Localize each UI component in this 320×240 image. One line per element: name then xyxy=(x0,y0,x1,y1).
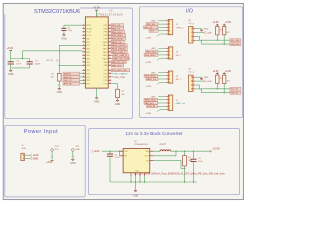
wire RB to SDA line xyxy=(223,84,225,93)
svg-text:PA7: PA7 xyxy=(86,61,89,64)
global label PB7_RX xyxy=(146,23,158,26)
svg-text:+3.3V: +3.3V xyxy=(145,38,151,40)
svg-text:SWCLK: SWCLK xyxy=(64,77,72,79)
svg-text:STM32C071KBU6: STM32C071KBU6 xyxy=(34,9,80,15)
capacitor C4 input xyxy=(109,151,111,154)
wire RA to SCL line xyxy=(216,84,218,89)
svg-text:PD1: PD1 xyxy=(104,73,108,75)
svg-text:PA9_SCL: PA9_SCL xyxy=(145,102,155,105)
U2 pin VIN xyxy=(120,150,124,152)
resistor RB pull-up xyxy=(223,25,225,27)
svg-text:PA11_USB_N: PA11_USB_N xyxy=(113,54,127,57)
ground below R1 xyxy=(58,86,60,88)
connector J5 pin stubs xyxy=(166,95,168,97)
regulator U2 body xyxy=(123,149,150,173)
svg-text:SPI_1: SPI_1 xyxy=(176,55,183,57)
global label +3.3V output xyxy=(210,150,212,153)
svg-text:I/O: I/O xyxy=(186,9,193,15)
junction BOOT0 xyxy=(59,65,60,66)
wire BOOT0 net vertical xyxy=(58,45,60,65)
svg-text:+3.3V: +3.3V xyxy=(46,161,53,164)
resistor RB pull-up xyxy=(223,74,225,76)
section box Power Input xyxy=(5,125,85,197)
svg-text:PB8: PB8 xyxy=(86,65,90,67)
net label GND on J3 pin 1 xyxy=(158,47,166,49)
svg-text:PA10: PA10 xyxy=(103,58,107,61)
svg-text:PA15: PA15 xyxy=(103,41,107,44)
svg-text:PB3_MOSI: PB3_MOSI xyxy=(112,38,123,40)
svg-text:PA9_I2C_SCL: PA9_I2C_SCL xyxy=(112,61,127,64)
ground below U2 xyxy=(135,182,137,191)
svg-text:PC6: PC6 xyxy=(104,83,108,85)
wire ground bus xyxy=(110,181,197,183)
svg-text:PA8: PA8 xyxy=(104,64,107,67)
global label +12V input xyxy=(92,150,94,153)
svg-text:PB1_TIM1: PB1_TIM1 xyxy=(115,77,126,79)
svg-text:Power Input: Power Input xyxy=(24,129,58,135)
svg-text:GND: GND xyxy=(33,157,39,160)
power symbol +3.3V above RA xyxy=(216,73,219,75)
svg-text:SWDIO: SWDIO xyxy=(64,73,72,75)
resistor R1 xyxy=(58,73,62,81)
svg-text:GND: GND xyxy=(70,162,76,165)
connector J4 body xyxy=(168,71,173,83)
svg-text:PB9: PB9 xyxy=(86,70,90,72)
inductor L1 2.2uH xyxy=(160,150,171,151)
U2 pin EN xyxy=(120,155,124,157)
svg-text:PB6_TX: PB6_TX xyxy=(144,27,153,29)
unconnected circle below R1 xyxy=(58,81,60,84)
svg-text:PB5_SCK: PB5_SCK xyxy=(112,32,122,34)
svg-text:2.2uH: 2.2uH xyxy=(159,144,165,146)
section box I/O xyxy=(139,7,242,118)
svg-text:PA10_SDA: PA10_SDA xyxy=(145,99,156,102)
resistor R3 feedback xyxy=(184,151,186,155)
connector J1 body (screw terminal) xyxy=(21,153,24,161)
microcontroller U1 STM32C071KBU6 body xyxy=(85,17,108,88)
connector J4 pin stubs xyxy=(166,71,168,73)
wire B2 pin3 to label SCL_5V xyxy=(195,84,199,86)
junction VOS xyxy=(175,151,176,152)
connector B1 body xyxy=(189,27,194,44)
svg-text:+3.3V: +3.3V xyxy=(225,22,232,24)
wire NRST to capacitor C6 xyxy=(64,24,82,26)
svg-text:PA5: PA5 xyxy=(86,54,89,57)
wire +3.3V to capacitor bus xyxy=(10,51,12,59)
U1 right-side global labels rows 1-14 xyxy=(111,24,124,27)
ground below capacitor bank xyxy=(10,68,12,71)
label row 16 PB1_PWM xyxy=(111,76,114,78)
svg-text:PA14: PA14 xyxy=(103,44,107,47)
global label BTN_IN xyxy=(147,105,158,108)
svg-text:+3.3V: +3.3V xyxy=(93,6,100,10)
svg-text:NRST: NRST xyxy=(86,25,92,27)
net label GND on J2 pin 1 xyxy=(158,20,166,22)
global label CTS xyxy=(149,29,158,32)
capacitor C2 xyxy=(29,59,31,62)
svg-text:22uF: 22uF xyxy=(198,161,203,163)
svg-text:PA6: PA6 xyxy=(86,58,89,61)
svg-text:SW: SW xyxy=(145,151,148,153)
svg-text:PD0: PD0 xyxy=(104,70,108,72)
global label PA10_SDA xyxy=(144,98,158,101)
svg-text:UART_sel: UART_sel xyxy=(176,102,186,105)
wire inductor to +3.3V output xyxy=(171,150,210,152)
U1 right pin stubs, numbers and pin names xyxy=(108,24,111,26)
wire B1 pin4 to label SDA_3V3 xyxy=(195,39,201,41)
svg-text:12v to 3.3v Buck Converter: 12v to 3.3v Buck Converter xyxy=(126,131,184,136)
global label PA15_CS xyxy=(146,78,158,81)
wire SW to inductor L1 xyxy=(153,150,160,152)
ground GND below U1 xyxy=(95,98,98,99)
svg-text:PB6: PB6 xyxy=(104,28,108,30)
wire EN tie to VIN xyxy=(119,151,120,152)
wire B2 pin1 to ground xyxy=(195,76,201,78)
connector B2 pin stubs xyxy=(193,76,195,78)
svg-text:SDA_5V: SDA_5V xyxy=(231,92,239,95)
svg-text:+3.3V: +3.3V xyxy=(6,47,13,50)
svg-text:10k: 10k xyxy=(51,76,54,78)
svg-text:I2C_p: I2C_p xyxy=(189,72,195,74)
wire FB to divider xyxy=(153,159,181,161)
wire BOOT0 to R1 xyxy=(58,65,60,73)
junction C5 top xyxy=(193,151,194,152)
svg-text:+3.3V: +3.3V xyxy=(212,22,219,24)
svg-text:SPI_2: SPI_2 xyxy=(176,79,183,81)
net label GND on J4 pin 1 xyxy=(158,71,166,73)
power label +3.3v on J5 last pin xyxy=(160,109,166,111)
connector J2 pin stubs xyxy=(166,20,168,22)
svg-text:PA10_I2C_SDA: PA10_I2C_SDA xyxy=(113,58,129,61)
U1 left pin stubs, numbers and pin names xyxy=(82,24,85,26)
svg-text:CTS: CTS xyxy=(150,31,155,33)
junction R3 top xyxy=(184,151,185,152)
power label +3.3v on J3 last pin xyxy=(160,57,166,59)
svg-text:PA9: PA9 xyxy=(104,61,107,64)
global label +12V at J1 pin 1 xyxy=(30,154,32,157)
U2 pin VOS xyxy=(150,155,154,157)
svg-text:GND: GND xyxy=(204,77,209,79)
svg-text:SCL_3V3: SCL_3V3 xyxy=(231,40,240,42)
svg-text:PA15_CS: PA15_CS xyxy=(147,78,157,81)
svg-text:4K7: 4K7 xyxy=(227,81,230,83)
svg-text:+3.3V: +3.3V xyxy=(225,71,232,73)
power label +3.3v at B2 pin2 xyxy=(195,80,204,82)
power symbol +3.3V above RA xyxy=(216,24,219,26)
svg-text:PA13_SWDIO: PA13_SWDIO xyxy=(112,48,126,51)
connector J5 body xyxy=(168,95,173,110)
svg-text:PB7_RX: PB7_RX xyxy=(147,24,156,26)
wire PC6 to resistor R2 xyxy=(111,83,117,85)
U2 pin FB xyxy=(150,159,154,161)
svg-text:+3.3V: +3.3V xyxy=(212,71,219,73)
svg-text:PA0: PA0 xyxy=(86,37,89,40)
J1 pin stubs xyxy=(23,154,24,156)
svg-text:GND: GND xyxy=(57,91,63,94)
svg-text:PB3: PB3 xyxy=(86,83,90,85)
svg-text:PB6_TX: PB6_TX xyxy=(112,28,121,30)
svg-text:VDDA: VDDA xyxy=(86,27,92,30)
wire VDD to U1 pin 17 xyxy=(96,10,98,17)
junction on bus xyxy=(22,58,23,59)
ground at B1 pin1 xyxy=(200,30,203,31)
svg-text:PA1: PA1 xyxy=(86,41,89,44)
wire RB to SDA line xyxy=(223,35,225,44)
net label LED_STATUS (teal) row 15 xyxy=(111,73,113,75)
svg-text:Vo_3v3_Imax_500mA_Fsw_500KHZN_: Vo_3v3_Imax_500mA_Fsw_500KHZN_R_10T_delt… xyxy=(134,172,226,176)
svg-text:PC14: PC14 xyxy=(86,32,91,34)
svg-text:PA2: PA2 xyxy=(86,44,89,47)
global label PB3_MOSI xyxy=(144,74,158,77)
svg-text:GND: GND xyxy=(61,37,67,40)
svg-text:+3.3V: +3.3V xyxy=(145,86,151,88)
resistor RA pull-up xyxy=(216,74,218,76)
wire capacitor top bus xyxy=(11,58,30,60)
global label PB6_TX xyxy=(144,26,158,29)
global label SDA_3V3 xyxy=(230,43,241,46)
global label PB4_MISO xyxy=(144,53,158,56)
wire BOOT0 lower to U1 xyxy=(59,64,82,66)
global label GND at J1 pin 2 xyxy=(30,157,32,160)
svg-text:PB5_SCK: PB5_SCK xyxy=(146,51,156,53)
svg-text:I2C_p: I2C_p xyxy=(189,23,195,25)
ground under TP2 xyxy=(72,158,74,160)
svg-text:PB4_MISO: PB4_MISO xyxy=(145,55,156,57)
junction input cap xyxy=(109,151,110,152)
U2 pin SW xyxy=(150,150,154,152)
connector J3 pin stubs xyxy=(166,47,168,49)
svg-text:+12V: +12V xyxy=(94,150,100,153)
svg-text:PA4: PA4 xyxy=(86,51,89,54)
svg-text:PA8_LED: PA8_LED xyxy=(112,64,122,67)
test point TP2 xyxy=(72,149,75,152)
connector J2 body xyxy=(168,19,173,34)
svg-text:+3.3V: +3.3V xyxy=(206,32,212,34)
connector B2 body xyxy=(189,75,194,92)
svg-text:PB7_RX: PB7_RX xyxy=(112,25,121,27)
svg-text:4.7uF: 4.7uF xyxy=(16,64,22,66)
svg-text:PB2: PB2 xyxy=(86,80,90,82)
svg-text:TPS62A02DRL: TPS62A02DRL xyxy=(134,143,149,146)
net label GND on J5 pin 1 xyxy=(158,95,166,97)
resistor R2 xyxy=(116,89,120,98)
svg-text:PA3: PA3 xyxy=(86,47,89,50)
wire BOOT0 upper to U1 xyxy=(59,44,82,46)
svg-text:100n: 100n xyxy=(68,30,72,32)
svg-text:4.7uF: 4.7uF xyxy=(115,157,121,159)
svg-text:VOS: VOS xyxy=(144,156,149,158)
svg-text:PD0_ADC_IN0: PD0_ADC_IN0 xyxy=(112,69,127,72)
svg-text:PB4: PB4 xyxy=(104,35,108,37)
svg-text:PB0: PB0 xyxy=(86,73,90,75)
svg-text:PB5: PB5 xyxy=(104,32,108,34)
wire C6 to ground xyxy=(63,31,65,35)
svg-text:PC15: PC15 xyxy=(86,35,91,37)
test point TP1 xyxy=(51,149,54,152)
global label PA9_SCL xyxy=(144,102,158,105)
svg-text:PB3: PB3 xyxy=(104,38,108,40)
wire B1 pin1 to ground xyxy=(195,28,201,30)
global label PB5_SCK xyxy=(146,50,158,53)
svg-text:VIN: VIN xyxy=(124,151,128,153)
wire VOS sense xyxy=(153,155,176,157)
svg-text:TYPE_C: TYPE_C xyxy=(176,27,185,29)
global label SCL_3V3 xyxy=(230,39,241,42)
connector B1 pin stubs xyxy=(193,28,195,30)
ground at B2 pin1 xyxy=(200,79,203,80)
svg-text:PD3: PD3 xyxy=(104,80,108,82)
power label +3.3v at B1 pin2 xyxy=(195,32,204,34)
capacitor C6 xyxy=(61,27,66,29)
svg-text:GND: GND xyxy=(75,149,80,151)
power label +3.3v on J4 last pin xyxy=(160,81,166,83)
global label SDA_5V xyxy=(230,91,241,94)
svg-text:BOOT0: BOOT0 xyxy=(46,60,52,62)
left label stack SWD rows xyxy=(63,72,80,75)
connector J3 body xyxy=(168,47,173,59)
svg-text:LED_STATUS: LED_STATUS xyxy=(114,73,128,76)
global label SCL_5V xyxy=(230,87,241,90)
svg-text:100nF: 100nF xyxy=(35,64,41,66)
svg-text:PA15_CS: PA15_CS xyxy=(112,41,122,44)
wire R3 bottom to ground bus xyxy=(184,166,186,182)
svg-text:PA11: PA11 xyxy=(103,54,107,57)
resistor RA pull-up xyxy=(216,25,218,27)
U2 bottom GND pad pins xyxy=(130,173,132,176)
svg-text:+3.3V: +3.3V xyxy=(212,147,220,151)
svg-text:PD2: PD2 xyxy=(104,77,108,79)
section box 12v to 3.3v Buck Converter xyxy=(89,129,240,195)
wire U1 VSS to ground xyxy=(96,88,98,91)
power symbol +3.3V above RB xyxy=(223,24,226,26)
svg-text:GND: GND xyxy=(133,195,139,198)
svg-text:SDA_3V3: SDA_3V3 xyxy=(231,43,241,46)
section box STM32C071KBU6 xyxy=(5,8,133,119)
svg-text:STM32C071KBU6: STM32C071KBU6 xyxy=(96,14,123,17)
svg-text:GND: GND xyxy=(94,100,100,103)
ground below C6 xyxy=(62,35,65,36)
svg-text:PA12: PA12 xyxy=(103,51,107,54)
svg-text:PB1: PB1 xyxy=(86,77,90,79)
svg-text:+3.3V: +3.3V xyxy=(145,62,151,64)
svg-text:GND: GND xyxy=(8,73,14,76)
svg-text:PA12_USB_P: PA12_USB_P xyxy=(112,51,126,54)
wire R2 to ground xyxy=(117,98,119,101)
svg-text:PA14_SWCLK: PA14_SWCLK xyxy=(112,44,127,47)
svg-text:PB3_MOSI: PB3_MOSI xyxy=(145,76,156,78)
svg-text:PB4_MISO: PB4_MISO xyxy=(112,35,123,37)
svg-text:SCL_5V: SCL_5V xyxy=(231,89,239,91)
wire capacitor bottom bus xyxy=(11,67,30,69)
ground below R2 xyxy=(116,100,119,101)
capacitor C5 output xyxy=(193,151,195,159)
wire B2 pin4 to label SDA_5V xyxy=(195,88,201,90)
wire RA to SCL line xyxy=(216,35,218,40)
svg-text:+3.3V: +3.3V xyxy=(206,81,212,83)
svg-text:GND: GND xyxy=(115,103,121,106)
power symbol +3.3V above RB xyxy=(223,73,226,75)
svg-text:BTN_IN: BTN_IN xyxy=(64,84,72,86)
svg-text:BTN_IN: BTN_IN xyxy=(147,106,155,108)
global label BOOT0 xyxy=(56,59,58,62)
svg-text:PB7: PB7 xyxy=(104,25,108,27)
wire +12V to U2 VIN xyxy=(102,150,123,152)
sheet background xyxy=(3,3,243,199)
svg-text:GND: GND xyxy=(204,29,209,31)
power label +3.3v on J2 last pin xyxy=(160,33,166,35)
svg-text:10k: 10k xyxy=(121,94,124,96)
svg-text:+3.3V: +3.3V xyxy=(145,113,151,115)
svg-text:LED_ST: LED_ST xyxy=(64,80,73,82)
capacitor C1 xyxy=(10,59,12,62)
svg-text:4K7: 4K7 xyxy=(227,32,230,34)
wire B1 pin3 to label SCL_3V3 xyxy=(195,35,199,37)
wire VDD feed to U1 xyxy=(22,51,24,59)
svg-text:PA13: PA13 xyxy=(103,47,107,50)
